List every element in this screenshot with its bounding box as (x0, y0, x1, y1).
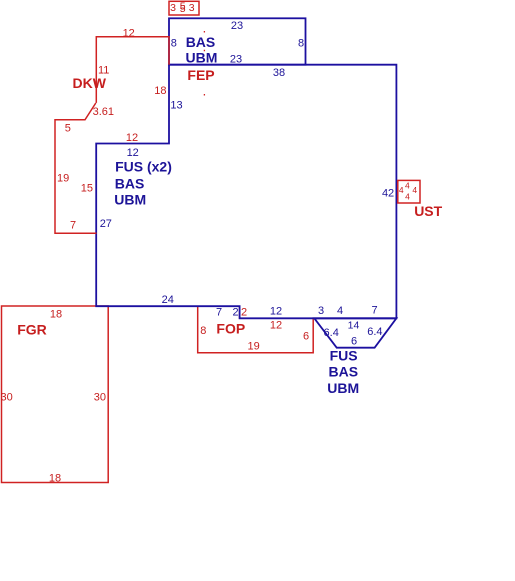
svg-text:8: 8 (298, 38, 304, 50)
svg-text:38: 38 (273, 67, 285, 79)
svg-text:FEP: FEP (187, 67, 214, 83)
svg-text:BAS: BAS (329, 364, 359, 380)
svg-text:5: 5 (65, 123, 71, 135)
svg-text:30: 30 (1, 391, 13, 403)
svg-text:UBM: UBM (114, 192, 146, 208)
svg-text:6: 6 (351, 336, 357, 348)
svg-text:UBM: UBM (327, 380, 359, 396)
svg-text:2: 2 (241, 307, 247, 319)
svg-text:8: 8 (200, 325, 206, 337)
svg-text:5: 5 (180, 3, 186, 15)
svg-text:15: 15 (81, 182, 93, 194)
svg-text:BAS: BAS (115, 175, 145, 191)
svg-text:3: 3 (318, 305, 324, 317)
svg-text:18: 18 (154, 85, 166, 97)
svg-text:12: 12 (123, 27, 135, 39)
svg-text:FOP: FOP (216, 320, 245, 336)
svg-text:4: 4 (399, 185, 404, 195)
svg-text:6.4: 6.4 (367, 326, 382, 338)
svg-text:FUS (x2): FUS (x2) (115, 158, 172, 174)
svg-text:UST: UST (414, 203, 442, 219)
svg-text:24: 24 (162, 294, 174, 306)
svg-text:4: 4 (337, 305, 343, 317)
svg-text:23: 23 (231, 20, 243, 32)
svg-text:13: 13 (170, 100, 182, 112)
svg-text:7: 7 (372, 305, 378, 317)
svg-text:23: 23 (230, 53, 242, 65)
svg-text:12: 12 (126, 132, 138, 144)
svg-text:FGR: FGR (17, 321, 47, 337)
svg-text:UBM: UBM (186, 49, 218, 65)
svg-text:FUS: FUS (330, 347, 358, 363)
svg-text:DKW: DKW (73, 75, 107, 91)
svg-text:6: 6 (303, 330, 309, 342)
svg-text:3: 3 (189, 2, 195, 14)
svg-text:4: 4 (405, 191, 410, 201)
svg-text:12: 12 (270, 320, 282, 332)
svg-text:18: 18 (49, 473, 61, 485)
svg-text:7: 7 (70, 220, 76, 232)
svg-text:2: 2 (232, 307, 238, 319)
svg-text:3.61: 3.61 (93, 106, 114, 118)
svg-text:12: 12 (127, 147, 139, 159)
svg-text:6.4: 6.4 (324, 327, 339, 339)
svg-text:19: 19 (247, 341, 259, 353)
svg-text:14: 14 (348, 319, 360, 331)
svg-text:18: 18 (50, 308, 62, 320)
svg-text:7: 7 (216, 307, 222, 319)
svg-text:12: 12 (270, 305, 282, 317)
svg-text:3: 3 (170, 2, 176, 14)
svg-text:19: 19 (57, 173, 69, 185)
svg-text:BAS: BAS (186, 34, 216, 50)
svg-text:8: 8 (171, 38, 177, 50)
svg-text:27: 27 (100, 218, 112, 230)
svg-text:30: 30 (94, 392, 106, 404)
svg-text:42: 42 (382, 187, 394, 199)
svg-text:4: 4 (412, 185, 417, 195)
svg-text:4: 4 (405, 181, 410, 191)
